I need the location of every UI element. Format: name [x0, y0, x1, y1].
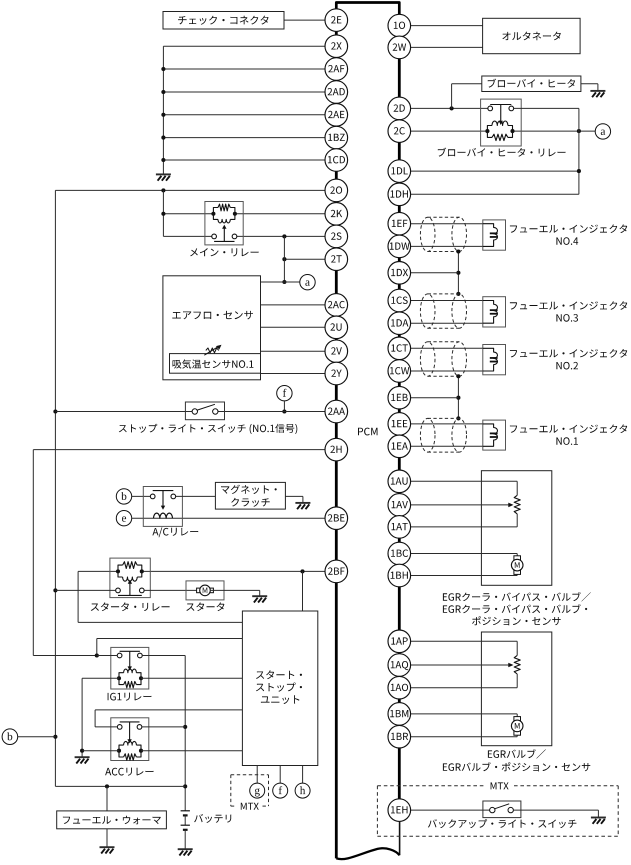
pin 2S — [325, 225, 348, 248]
wire ACC switch right — [142, 726, 185, 728]
pin 1BZ — [325, 126, 348, 149]
pin 2E — [325, 9, 348, 32]
pin 1EB — [388, 386, 411, 409]
node intake air temp sensor box — [170, 354, 261, 374]
node g — [250, 783, 265, 798]
pin 1CT — [388, 337, 411, 360]
motor starter — [186, 581, 224, 611]
node f upper — [277, 386, 292, 414]
wire IG1 coil left — [80, 678, 119, 757]
node blowby heater box — [482, 76, 581, 92]
ground — [295, 503, 310, 509]
wire 1CD — [161, 158, 325, 162]
wire 2W to alternator — [411, 46, 483, 48]
node b lower — [2, 729, 55, 745]
wire unit pin g — [256, 766, 258, 784]
wire shield drain no2-no1 — [456, 374, 460, 420]
pin 1AT — [388, 516, 411, 539]
wire 2H — [33, 450, 325, 656]
pin 2AF — [325, 58, 348, 81]
wire 1DL — [411, 169, 581, 173]
pin 1EE — [388, 413, 411, 436]
wire unit to IG1 switch — [95, 639, 243, 658]
wire fuel warmer ground — [106, 829, 108, 847]
wire 2K — [161, 190, 325, 236]
pin 2Y — [325, 362, 348, 385]
node fuel warmer box — [57, 811, 167, 829]
wire blowby heater ground — [581, 84, 598, 91]
pin 2AC — [325, 294, 348, 317]
wire IG1-ACC-battery vertical — [183, 656, 187, 811]
wire 2V — [261, 350, 326, 352]
wire ACC coil — [82, 750, 242, 752]
relay AC-relay — [143, 487, 198, 538]
node h — [295, 783, 310, 798]
injector fuel-injector-no2 — [411, 342, 628, 377]
wire ACC switch left — [95, 710, 242, 727]
valve EGR-cooler-bypass — [411, 471, 591, 626]
wire IG1 switch line — [97, 655, 185, 657]
pin 2X — [325, 35, 348, 58]
wire 2Y — [261, 373, 326, 375]
pin 2BF — [325, 560, 348, 583]
wire to fuel warmer — [106, 786, 108, 811]
node check connector box — [163, 12, 284, 30]
wire IG1 coil right — [141, 677, 242, 679]
node e — [116, 511, 131, 526]
wire 2BE — [132, 517, 325, 519]
node magnet clutch box — [215, 482, 285, 509]
wire 2U — [261, 326, 326, 328]
pin 2T — [325, 248, 348, 271]
pin 2U — [325, 316, 348, 339]
wire 2S-2T-a vertical — [282, 236, 286, 284]
pin 1EA — [388, 435, 411, 458]
pin 2C — [388, 120, 411, 143]
pin 1AV — [388, 494, 411, 517]
text PCM — [358, 428, 378, 436]
ground — [252, 596, 267, 602]
node start-stop-unit box — [242, 611, 317, 766]
wire shield drain no4-no3 — [456, 249, 460, 296]
wire unit pin h — [302, 766, 304, 784]
ground — [75, 757, 90, 763]
wire 1EB — [411, 397, 459, 399]
ground — [590, 91, 605, 97]
wire 2BF — [78, 569, 325, 622]
switch backup-light — [428, 801, 577, 828]
wire 2O — [55, 188, 325, 192]
pin 1DH — [388, 183, 411, 206]
node MTX dashed box large — [377, 782, 618, 836]
pin 1O — [388, 14, 411, 37]
pin 1EH — [388, 799, 411, 822]
injector fuel-injector-no1 — [411, 418, 628, 452]
wire AC relay to clutch — [176, 495, 216, 497]
node f lower — [273, 783, 288, 798]
pin 2BE — [325, 507, 348, 530]
relay main-relay — [190, 202, 259, 257]
node MTX dashed box small — [231, 775, 269, 810]
relay starter-relay — [91, 558, 170, 611]
pin 1BC — [388, 542, 411, 565]
relay IG1-relay — [108, 647, 152, 700]
ground — [178, 849, 193, 855]
pin 2W — [388, 36, 411, 59]
wire 2AC — [261, 304, 326, 306]
wire left bus vertical — [53, 190, 57, 786]
wire 2AF — [161, 67, 325, 71]
wire backup switch ground — [513, 810, 598, 817]
wire 2AE — [161, 113, 325, 117]
pin 1CW — [388, 360, 411, 383]
pin 1EF — [388, 212, 411, 235]
node alternator box — [483, 18, 580, 53]
pin 2H — [325, 438, 348, 461]
wire PCM left connector rail — [336, 3, 399, 859]
pin 1AO — [388, 676, 411, 699]
wire 2C — [411, 129, 596, 133]
pin 2K — [325, 203, 348, 226]
injector fuel-injector-no4 — [411, 217, 628, 251]
pin 1AQ — [388, 654, 411, 677]
pin 1DW — [388, 235, 411, 258]
switch stop-light — [119, 402, 297, 434]
ground — [100, 847, 115, 853]
wire clutch to ground — [285, 496, 303, 502]
pin 1CS — [388, 289, 411, 312]
wire 2AA — [55, 411, 325, 413]
pin 1AP — [388, 630, 411, 653]
wire airflow to node a — [261, 281, 300, 283]
pin 1BH — [388, 564, 411, 587]
pin 2AA — [325, 400, 348, 423]
injector fuel-injector-no3 — [411, 294, 628, 328]
wire starter switch line — [55, 589, 199, 591]
wire 2T — [282, 257, 325, 261]
pin 1BR — [388, 725, 411, 748]
relay ACC-relay — [105, 718, 153, 776]
pin 1DX — [388, 262, 411, 285]
wire 2X feed rail — [163, 46, 325, 174]
pin 1DA — [388, 312, 411, 335]
wire 1DH — [411, 193, 579, 195]
node airflow sensor box — [163, 276, 261, 380]
wire 2D — [411, 84, 488, 111]
pin 2AE — [325, 104, 348, 127]
relay blowby-heater-relay — [438, 99, 566, 157]
ground — [591, 818, 606, 824]
wire bottom bus — [55, 784, 185, 788]
thermistor — [204, 345, 221, 356]
wire harness break wave — [336, 848, 399, 859]
pin 1BM — [388, 703, 411, 726]
wire 1BZ — [161, 136, 325, 140]
pin 2O — [325, 179, 348, 202]
pin 1AU — [388, 470, 411, 493]
wire blowby relay right vertical — [514, 108, 579, 194]
battery BAT — [181, 811, 232, 849]
wire 1EH to switch — [411, 809, 490, 811]
valve EGR-valve — [411, 632, 591, 771]
wire unit pin f — [279, 766, 281, 784]
wire 1O to alternator — [411, 25, 483, 27]
wire 2S — [163, 234, 325, 238]
wire 1DX — [411, 272, 459, 274]
wire starter to ground — [211, 590, 260, 596]
wire 2AD — [161, 90, 325, 94]
pin 2AD — [325, 81, 348, 104]
pin 2D — [388, 97, 411, 120]
node a left — [300, 275, 315, 290]
pin 1DL — [388, 160, 411, 183]
pin 1CD — [325, 149, 348, 172]
wire check connector to 2E — [284, 19, 325, 21]
pin 2V — [325, 340, 348, 363]
node b upper — [116, 489, 150, 504]
node a right — [595, 124, 610, 139]
ground — [156, 174, 171, 180]
